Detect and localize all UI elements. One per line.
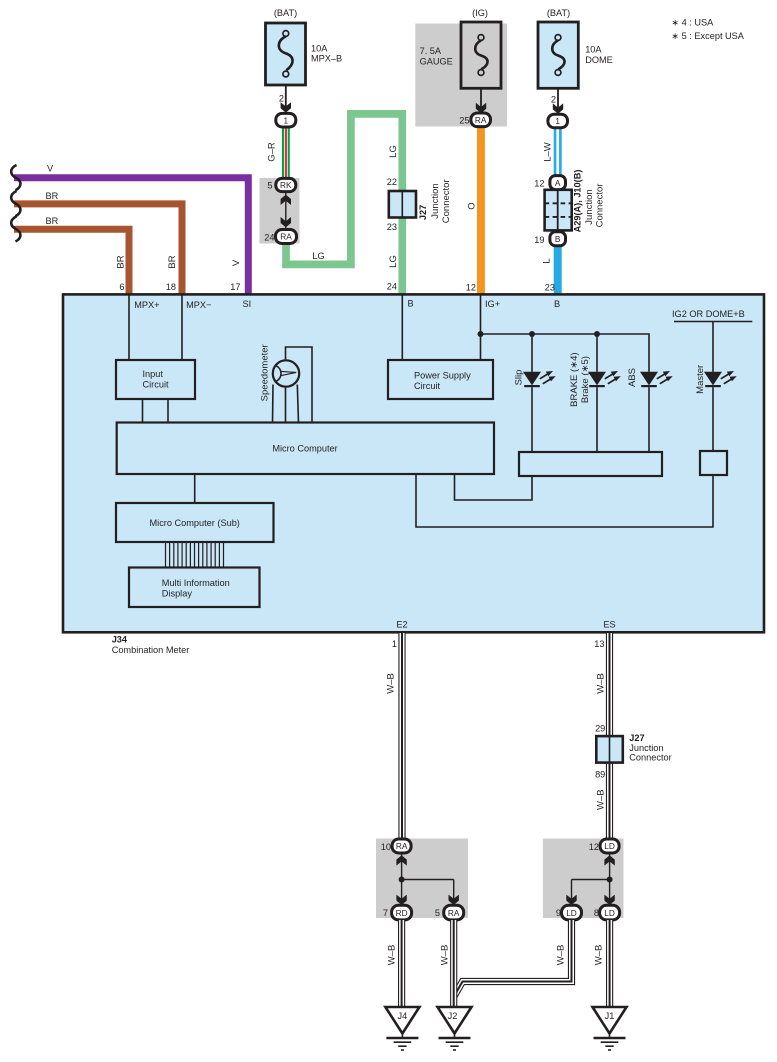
label L-W (vertical) [543, 142, 554, 162]
wire G-R (green with red stripe) from oval 1 to 5RK [282, 127, 290, 179]
pin 18 label [166, 282, 176, 292]
wire V (violet) from connector stub to pin 17 [11, 165, 248, 295]
svg-text:W–B: W–B [439, 945, 450, 966]
connector 10 RA [392, 839, 411, 853]
arrow and split to 7RD / 5RA [396, 853, 459, 905]
label Master (vertical) [695, 365, 706, 394]
pin 1 label (E2) [392, 639, 397, 649]
svg-text:Junction: Junction [629, 743, 663, 753]
svg-text:12: 12 [534, 179, 544, 189]
svg-text:DOME: DOME [585, 55, 613, 65]
svg-text:6: 6 [119, 282, 124, 292]
svg-text:10A: 10A [311, 44, 328, 54]
svg-text:Junction: Junction [584, 189, 595, 224]
label W-B (5RA wire) [439, 945, 450, 966]
LED Slip [523, 371, 556, 452]
gray background box around bottom connectors 12LD/9LD/8LD [543, 839, 624, 919]
label LG (vertical below J27) [388, 255, 399, 268]
svg-text:W–B: W–B [387, 945, 398, 966]
svg-text:Multi Information: Multi Information [162, 578, 230, 588]
wire O (orange) from 25RA to pin 12 [477, 127, 485, 295]
svg-text:2: 2 [279, 94, 284, 104]
connector 7 RD [392, 905, 412, 920]
resistor box under Master LED [700, 451, 727, 475]
svg-text:8: 8 [594, 908, 599, 918]
svg-text:W–B: W–B [595, 673, 606, 694]
label W-B (ES wire below J27) [595, 789, 606, 810]
wire W-B from 8LD to ground J1 [606, 920, 613, 1007]
wire LED box to micro computer [455, 474, 533, 500]
svg-text:LD: LD [604, 908, 615, 918]
ribbon bus sub to display [166, 542, 224, 568]
note *4 USA / *5 Except USA [671, 18, 744, 41]
connector oval 1 (MPX-B) [276, 113, 296, 127]
svg-text:B: B [554, 299, 560, 309]
connector 12 LD [600, 839, 619, 853]
wire W-B from E2 to 10RA [398, 633, 405, 840]
wire W-B from 5RA to ground J2 [450, 920, 457, 1007]
micro computer box [117, 423, 494, 475]
svg-text:19: 19 [534, 235, 544, 245]
gray background box around bottom connectors 10RA/7RD/5RA [376, 839, 468, 919]
wire L (blue) from connector B to pin 23 [554, 246, 562, 295]
wire W-B from 7RD to ground J4 [398, 920, 405, 1007]
horizontal feed line to indicator LEDs [481, 331, 650, 372]
svg-text:LD: LD [566, 908, 577, 918]
svg-text:(BAT): (BAT) [274, 8, 297, 18]
connector label ES [603, 620, 615, 630]
svg-text:Slip: Slip [513, 370, 524, 386]
label Slip (vertical) [513, 370, 524, 386]
svg-text:O: O [467, 202, 478, 209]
junction connector J27 (top, on LG wire) [389, 191, 416, 218]
connector label E2 [396, 620, 407, 630]
svg-text:W–B: W–B [594, 945, 605, 966]
label ABS (vertical) [627, 368, 638, 387]
svg-text:ES: ES [603, 620, 615, 630]
LED BRAKE [588, 371, 621, 452]
pin 12 label (connector A) [534, 179, 544, 189]
svg-text:RA: RA [396, 841, 408, 851]
svg-text:89: 89 [595, 769, 605, 779]
svg-text:∗ 5 : Except USA: ∗ 5 : Except USA [671, 31, 744, 41]
pin 9 label [556, 908, 561, 918]
svg-text:5: 5 [435, 908, 440, 918]
connector 8 LD [600, 905, 620, 920]
svg-text:J4: J4 [398, 1011, 408, 1021]
connector 5 RA [444, 905, 464, 920]
gray background box around IG fuse [415, 24, 507, 127]
internal line MPX- to input circuit [181, 295, 183, 360]
input circuit box [116, 360, 195, 399]
svg-text:L–W: L–W [543, 142, 554, 162]
connector oval B [550, 232, 566, 246]
pin 13 label (ES) [594, 639, 604, 649]
svg-text:9: 9 [556, 908, 561, 918]
pin 23 label (box entry) [545, 283, 555, 293]
svg-text:LG: LG [388, 145, 399, 158]
svg-text:MPX−: MPX− [186, 300, 211, 310]
pin 8 label [594, 908, 599, 918]
wire from fuse to oval 1 with arrow [281, 85, 291, 113]
svg-text:W–B: W–B [595, 789, 606, 810]
pin label MPX- [186, 300, 211, 310]
speedometer symbol [273, 347, 313, 423]
svg-text:Connector: Connector [629, 752, 671, 762]
line micro computer to sub [194, 474, 196, 503]
resistor box under warning LEDs [519, 452, 662, 476]
pin 17 label [230, 282, 240, 292]
svg-text:Speedometer: Speedometer [260, 344, 271, 401]
pin 5 label [267, 181, 272, 191]
label 10A DOME [585, 45, 613, 66]
wire L-W (blue with white stripe) from fuse DOME to connector A [554, 128, 562, 176]
fuse 10A DOME [538, 22, 578, 88]
svg-text:J34: J34 [112, 635, 128, 645]
label O (vertical) [467, 202, 478, 209]
svg-text:MPX–B: MPX–B [311, 54, 342, 64]
svg-text:E2: E2 [396, 620, 407, 630]
svg-text:ABS: ABS [627, 368, 638, 387]
label BR (horizontal, lower) [46, 216, 59, 226]
connector oval A [550, 176, 566, 190]
pin 6 label [119, 282, 124, 292]
svg-text:Micro Computer (Sub): Micro Computer (Sub) [150, 518, 240, 528]
svg-text:Micro Computer: Micro Computer [272, 444, 337, 454]
svg-text:BR: BR [46, 191, 59, 201]
label 7.5A GAUGE [420, 46, 453, 67]
label BR (horizontal, upper) [46, 191, 59, 201]
svg-text:24: 24 [387, 282, 397, 292]
svg-text:23: 23 [545, 283, 555, 293]
svg-text:Master: Master [695, 365, 706, 394]
svg-text:J1: J1 [605, 1011, 615, 1021]
svg-text:23: 23 [387, 222, 397, 232]
svg-text:LG: LG [388, 255, 399, 268]
svg-text:J27: J27 [629, 733, 644, 743]
gray background box around RK/RA connector pair [260, 178, 300, 244]
connector 9 LD [562, 905, 582, 920]
label J34 Combination Meter [112, 635, 190, 656]
pin 24 label (box entry) [387, 282, 397, 292]
pin 89 label [595, 769, 605, 779]
label BRAKE (*4) Brake (*5) (vertical) [569, 352, 591, 406]
wire BR (brown) from connector stub to pin 18 [11, 191, 182, 295]
connector 25 RA [471, 113, 491, 127]
label BR (vertical near pin 6) [116, 255, 127, 268]
micro computer (sub) box [116, 503, 274, 542]
svg-text:RD: RD [396, 908, 408, 918]
svg-text:W–B: W–B [386, 673, 397, 694]
junction connector A29(A), J10(B) [545, 190, 572, 231]
svg-text:BR: BR [167, 255, 178, 268]
svg-text:SI: SI [243, 299, 252, 309]
svg-text:RA: RA [475, 115, 487, 125]
label J27 Junction Connector (bottom) [629, 733, 671, 763]
svg-text:J27: J27 [418, 205, 428, 220]
svg-text:L: L [542, 258, 553, 263]
pin 29 label [595, 723, 605, 733]
svg-text:W–B: W–B [556, 945, 567, 966]
svg-text:BR: BR [116, 255, 127, 268]
label G-R (vertical) [267, 142, 278, 162]
internal line IG+ down with junction [478, 295, 484, 360]
label W-B (E2 wire) [386, 673, 397, 694]
label L (vertical) [542, 258, 553, 263]
wire from fuse DOME to oval 1 with arrow [553, 88, 563, 114]
multi information display box [129, 568, 260, 608]
svg-text:Display: Display [162, 589, 193, 599]
wire W-B from 9LD to ground J2 [454, 920, 572, 997]
lines input circuit to micro computer [143, 399, 169, 423]
svg-text:Combination Meter: Combination Meter [112, 645, 190, 655]
wire BR (brown) from connector stub to pin 6 [11, 216, 129, 295]
svg-text:Connector: Connector [441, 179, 452, 223]
svg-text:GAUGE: GAUGE [420, 57, 453, 67]
wire Master box to micro computer [416, 474, 713, 527]
pin 10 label [381, 842, 391, 852]
pin 7 label [383, 908, 388, 918]
svg-text:Connector: Connector [595, 184, 606, 228]
label BR (vertical near pin 18) [167, 255, 178, 268]
pin 2 label (fuse DOME) [551, 94, 556, 104]
label W-B (7RD wire) [387, 945, 398, 966]
svg-text:MPX+: MPX+ [134, 300, 159, 310]
svg-text:BR: BR [46, 216, 59, 226]
svg-text:10: 10 [381, 842, 391, 852]
svg-text:29: 29 [595, 723, 605, 733]
wire W-B from ES to 12LD via J27 [606, 633, 613, 840]
svg-text:1: 1 [283, 115, 288, 125]
svg-text:RK: RK [280, 180, 292, 190]
combination meter box J34 fill [63, 294, 764, 632]
fuse 7.5A GAUGE [461, 22, 501, 88]
ground J4 [385, 1007, 419, 1050]
svg-text:Brake (∗5): Brake (∗5) [580, 356, 591, 403]
svg-text:Circuit: Circuit [143, 380, 169, 390]
label J27 (vertical, bold) [418, 205, 428, 220]
svg-text:2: 2 [551, 94, 556, 104]
label A29(A), J10(B) (vertical, bold) [572, 170, 582, 233]
label (BAT) for fuse DOME [547, 8, 570, 18]
node IG2 OR DOME+B [672, 309, 752, 372]
label V (vertical near pin 17) [231, 259, 242, 266]
svg-text:13: 13 [594, 639, 604, 649]
svg-text:1: 1 [555, 116, 560, 126]
pin label B (L wire) [554, 299, 560, 309]
svg-text:IG2 OR DOME+B: IG2 OR DOME+B [672, 309, 745, 319]
svg-text:7. 5A: 7. 5A [420, 46, 442, 56]
power supply circuit box [388, 360, 493, 399]
pin 12 label (LD) [589, 842, 599, 852]
svg-text:22: 22 [387, 177, 397, 187]
svg-text:BRAKE (∗4): BRAKE (∗4) [569, 352, 580, 406]
svg-text:1: 1 [392, 639, 397, 649]
svg-text:Power Supply: Power Supply [414, 371, 471, 381]
pin 22 label [387, 177, 397, 187]
pin 19 label (connector B) [534, 235, 544, 245]
wire LG (light green) loop from connector 24RA to pin 24 via J27 [286, 114, 402, 295]
svg-text:LD: LD [604, 841, 615, 851]
svg-text:10A: 10A [585, 45, 602, 55]
svg-text:5: 5 [267, 181, 272, 191]
svg-text:∗ 4 : USA: ∗ 4 : USA [671, 18, 714, 28]
svg-text:A29(A), J10(B): A29(A), J10(B) [572, 170, 582, 233]
svg-text:12: 12 [466, 283, 476, 293]
svg-text:25: 25 [459, 115, 469, 125]
svg-text:17: 17 [230, 282, 240, 292]
svg-text:Input: Input [143, 369, 164, 379]
svg-text:G–R: G–R [267, 142, 278, 162]
label W-B (8LD wire) [594, 945, 605, 966]
label Speedometer (vertical) [260, 344, 271, 401]
svg-text:RA: RA [448, 908, 460, 918]
pin 23 label [387, 222, 397, 232]
pin label IG+ [485, 299, 500, 309]
svg-text:7: 7 [383, 908, 388, 918]
junction connector J27 (bottom) [596, 736, 623, 763]
svg-text:LG: LG [312, 251, 324, 261]
pin 2 label (fuse MPX-B) [279, 94, 284, 104]
combination meter box J34 border [63, 294, 764, 632]
pin label SI [243, 299, 252, 309]
fuse 10A MPX-B [266, 23, 306, 85]
ground J2 [438, 1007, 472, 1050]
svg-text:(BAT): (BAT) [547, 8, 570, 18]
LED ABS [640, 371, 673, 452]
svg-text:18: 18 [166, 282, 176, 292]
pin 25 label [459, 115, 469, 125]
label (IG) [472, 8, 488, 18]
label Junction Connector (vertical) [430, 179, 452, 223]
label (BAT) for fuse MPX-B [274, 8, 297, 18]
svg-text:IG+: IG+ [485, 299, 500, 309]
label W-B (ES wire above J27) [595, 673, 606, 694]
svg-text:A: A [555, 178, 561, 188]
connector oval 1 (DOME) [548, 114, 568, 127]
label LG (horizontal on bottom segment) [312, 251, 324, 261]
svg-text:B: B [408, 299, 414, 309]
double arrow between RK and RA [281, 192, 291, 229]
pin 12 label (box entry, orange wire) [466, 283, 476, 293]
LED Master [704, 371, 737, 451]
svg-text:24: 24 [264, 232, 274, 242]
wire from fuse GAUGE to 25RA with arrow [476, 88, 486, 113]
svg-text:12: 12 [589, 842, 599, 852]
pin label B (LG wire) [408, 299, 414, 309]
svg-text:B: B [555, 234, 561, 244]
svg-text:J2: J2 [448, 1011, 458, 1021]
svg-text:V: V [47, 164, 54, 174]
svg-text:Junction: Junction [430, 183, 441, 218]
pin label MPX+ [134, 300, 159, 310]
pin 5 label [435, 908, 440, 918]
svg-text:(IG): (IG) [472, 8, 488, 18]
label Junction Connector (vertical, A29) [584, 184, 606, 228]
label LG (vertical above J27) [388, 145, 399, 158]
pin 24 label [264, 232, 274, 242]
svg-text:Circuit: Circuit [414, 381, 440, 391]
connector 5 RK [276, 178, 296, 191]
arrow and split to 9LD / 8LD [566, 853, 615, 905]
label W-B (9LD wire) [556, 945, 567, 966]
svg-text:V: V [231, 259, 242, 266]
ground J1 [593, 1007, 627, 1050]
label V (horizontal) [47, 164, 54, 174]
internal line MPX+ to input circuit [128, 295, 130, 360]
internal line B to power supply [401, 295, 403, 360]
label 10A MPX-B [311, 44, 342, 64]
connector 24 RA [276, 230, 297, 244]
svg-text:RA: RA [280, 232, 292, 242]
